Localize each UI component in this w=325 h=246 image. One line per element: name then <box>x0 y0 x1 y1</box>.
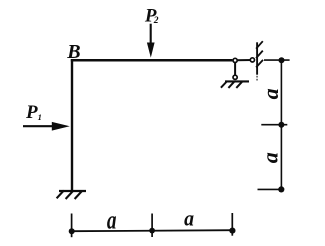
svg-text:a: a <box>107 206 117 234</box>
svg-text:2: 2 <box>153 16 159 26</box>
svg-text:a: a <box>258 88 283 99</box>
svg-text:B: B <box>66 41 80 63</box>
svg-text:a: a <box>258 152 283 163</box>
svg-text:1: 1 <box>38 112 42 122</box>
svg-text:a: a <box>184 206 194 231</box>
svg-text:P: P <box>25 102 38 123</box>
